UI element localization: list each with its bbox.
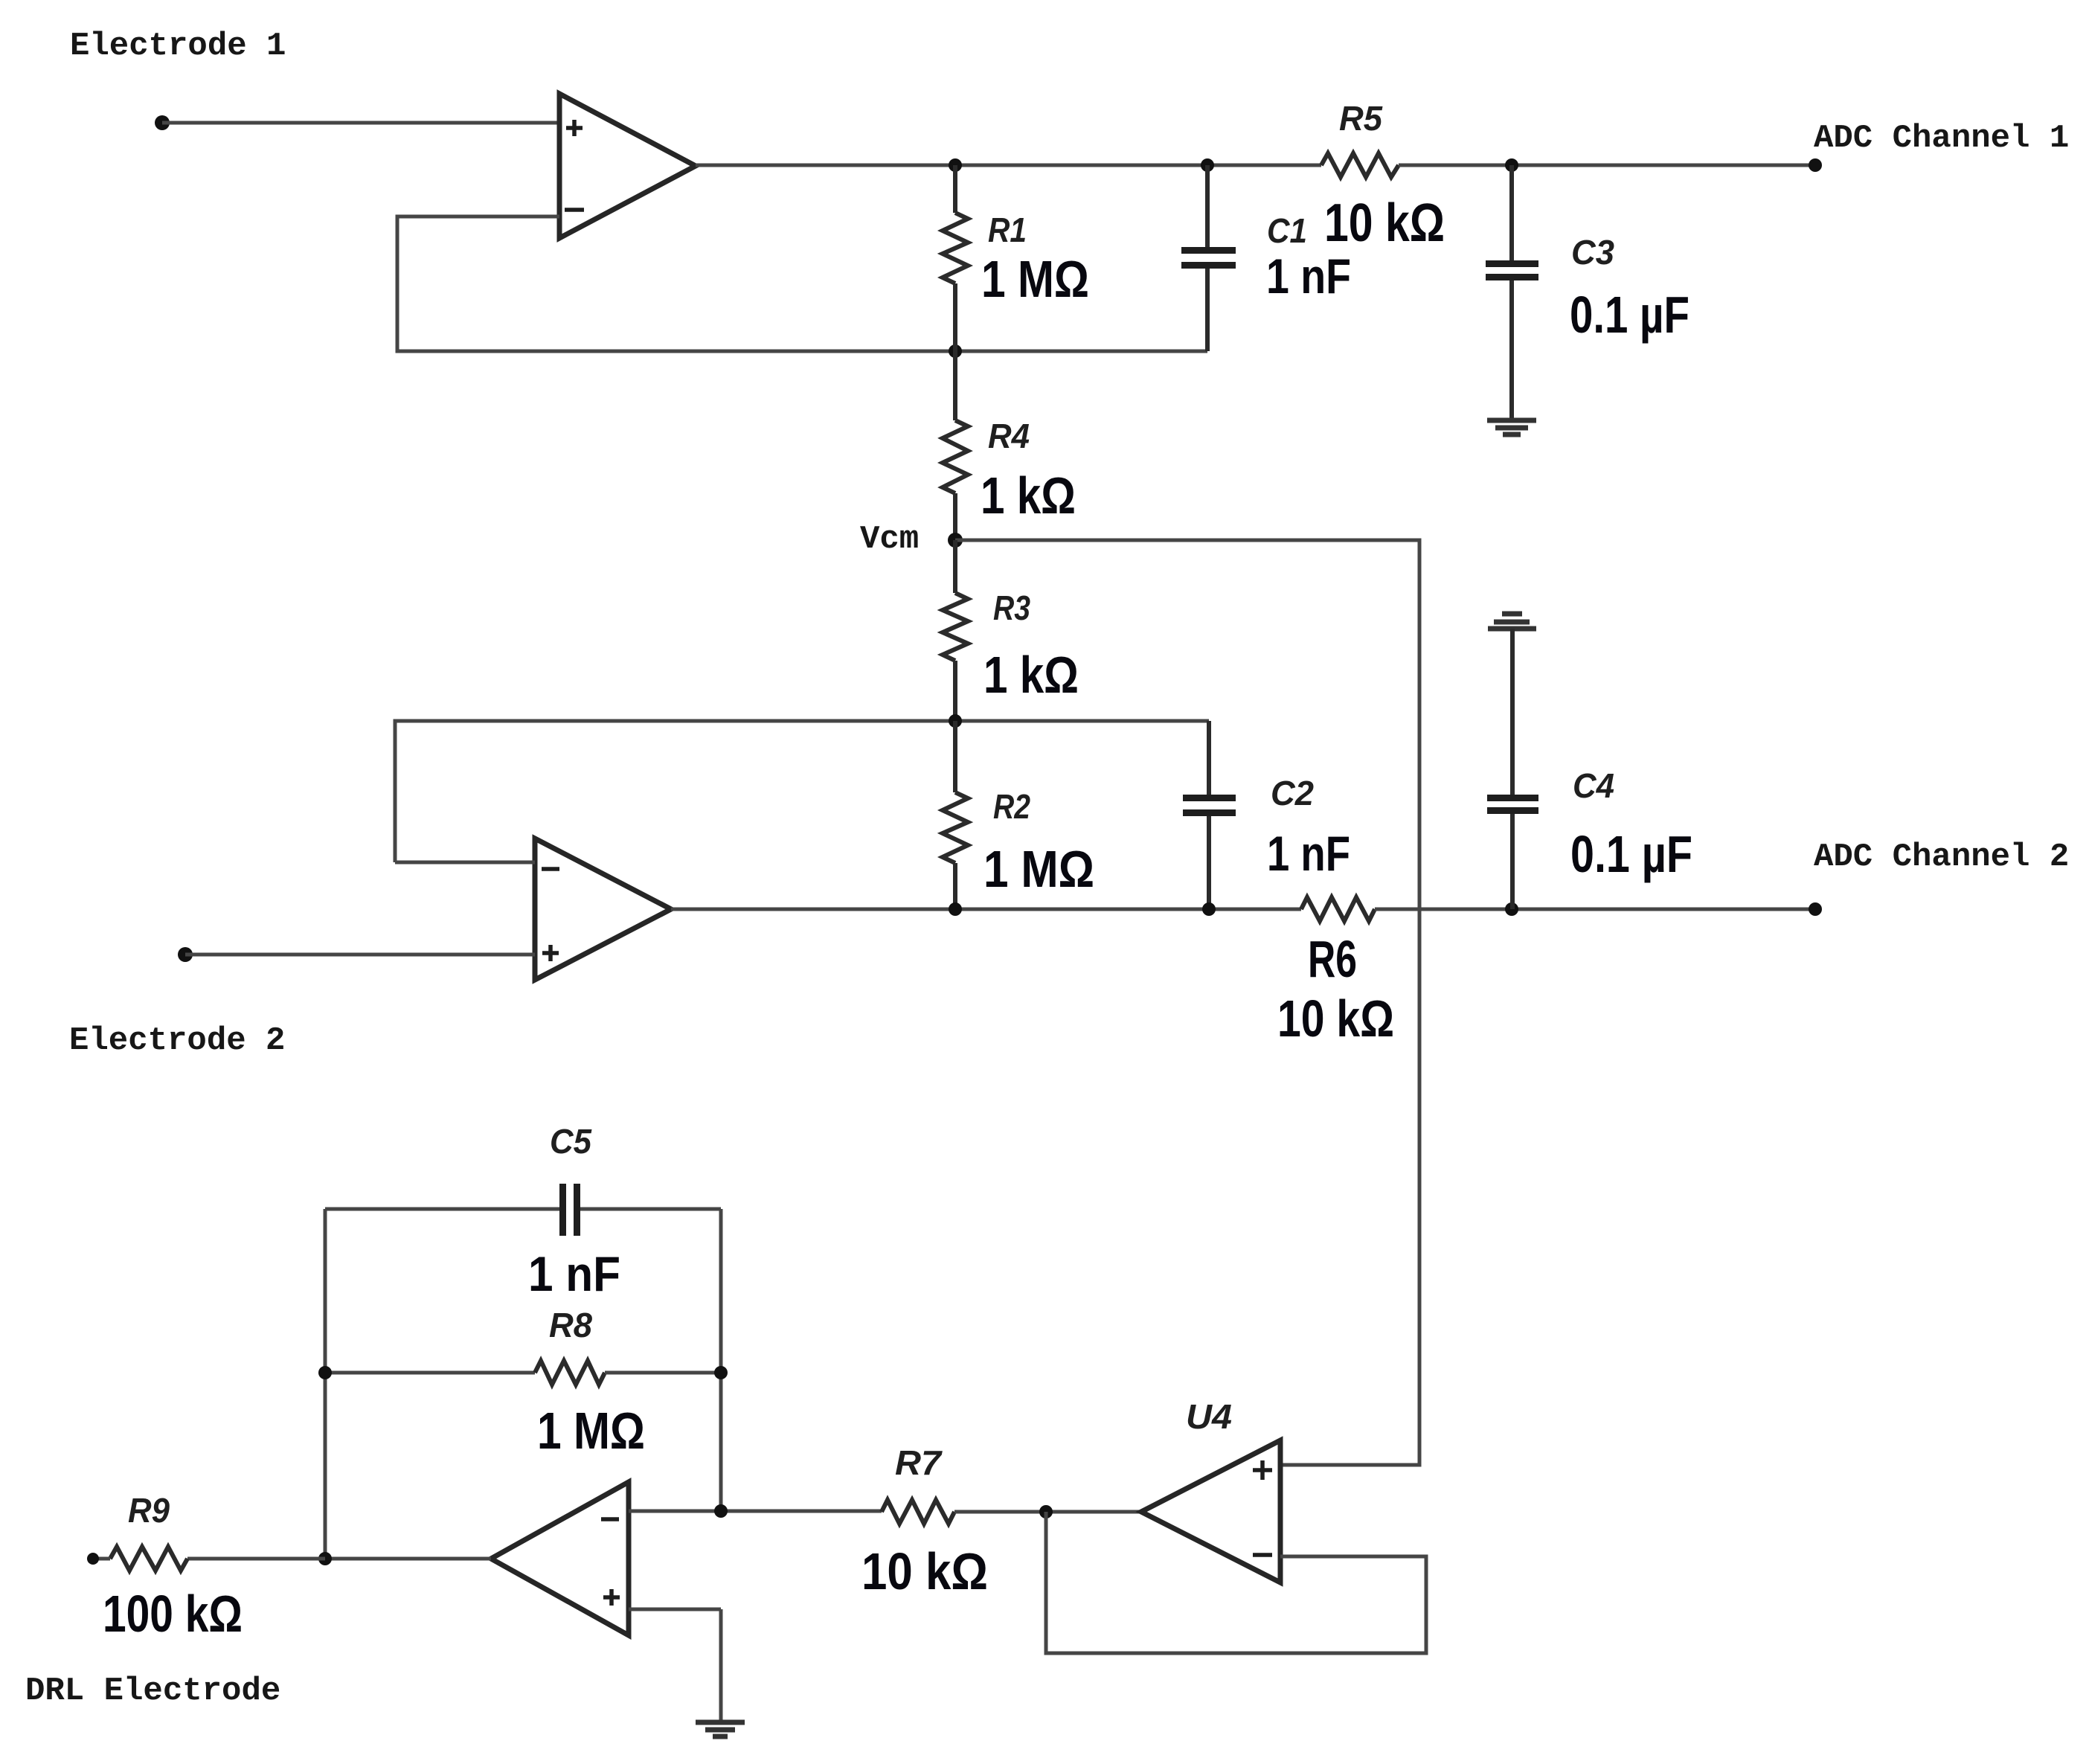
resistor R4: [943, 351, 968, 540]
capacitor C4: [1487, 629, 1538, 909]
capacitor C3: [1486, 165, 1538, 418]
wire: [93, 1557, 110, 1561]
wire: [954, 1510, 1141, 1514]
svg-text:C2: C2: [1271, 774, 1314, 812]
capacitor C2: [1183, 721, 1236, 909]
svg-text:1 kΩ: 1 kΩ: [981, 466, 1076, 525]
svg-text:C4: C4: [1573, 766, 1614, 805]
resistor R3: [943, 540, 968, 721]
resistor R6: [1301, 897, 1375, 921]
svg-text:R1: R1: [988, 211, 1027, 249]
wire: [1399, 164, 1815, 167]
wire: [719, 1609, 723, 1720]
wire: [395, 861, 535, 865]
op-amp U3: [491, 1482, 629, 1635]
svg-text:R2: R2: [993, 787, 1030, 826]
node ADC Channel 1 terminal: [1809, 158, 1822, 172]
wire: [162, 121, 559, 125]
resistor R1: [943, 165, 968, 351]
ground: [1487, 420, 1536, 434]
node Electrode 2 terminal: [178, 947, 193, 962]
ground: [696, 1722, 745, 1736]
node junction: [949, 714, 962, 728]
svg-text:1 MΩ: 1 MΩ: [981, 250, 1089, 308]
svg-text:1 MΩ: 1 MΩ: [537, 1402, 645, 1460]
svg-text:0.1 µF: 0.1 µF: [1570, 825, 1692, 883]
node junction: [949, 158, 962, 172]
wire: [397, 217, 1207, 351]
svg-text:Electrode 1: Electrode 1: [70, 28, 286, 65]
wire: [324, 1209, 327, 1559]
svg-text:C1: C1: [1267, 211, 1307, 250]
resistor R2: [943, 721, 968, 909]
op-amp U1: [559, 94, 696, 238]
node DRL Electrode terminal: [87, 1553, 99, 1565]
node junction: [1505, 902, 1518, 916]
wire: [629, 1608, 721, 1611]
node junction: [949, 344, 962, 358]
capacitor C5: [325, 1184, 721, 1236]
wire: [696, 164, 1321, 167]
wire: [187, 1557, 325, 1561]
wire: [395, 721, 1209, 862]
capacitor C1: [1181, 165, 1236, 351]
svg-text:R3: R3: [993, 588, 1030, 627]
node junction: [318, 1366, 332, 1379]
svg-text:1 nF: 1 nF: [1267, 826, 1350, 881]
svg-text:R9: R9: [128, 1491, 170, 1530]
svg-text:DRL Electrode: DRL Electrode: [25, 1672, 280, 1710]
wire: [185, 953, 535, 957]
svg-text:10 kΩ: 10 kΩ: [1324, 193, 1445, 253]
svg-text:ADC Channel 1: ADC Channel 1: [1814, 120, 2069, 157]
wire: [1046, 1512, 1426, 1653]
svg-text:R6: R6: [1308, 930, 1357, 988]
svg-text:1 kΩ: 1 kΩ: [983, 646, 1079, 704]
node Vcm junction: [948, 533, 963, 548]
resistor R5: [1321, 153, 1399, 177]
node junction: [714, 1366, 728, 1379]
svg-text:R8: R8: [549, 1306, 592, 1344]
node junction: [714, 1504, 728, 1518]
node junction: [318, 1552, 332, 1565]
node junction: [1202, 902, 1216, 916]
node junction: [1201, 158, 1214, 172]
resistor R8: [325, 1361, 721, 1385]
svg-text:R5: R5: [1339, 99, 1383, 138]
svg-text:U4: U4: [1186, 1397, 1232, 1436]
svg-text:Vcm: Vcm: [860, 521, 919, 558]
wire: [629, 1510, 882, 1513]
wire: [719, 1209, 723, 1511]
svg-text:10 kΩ: 10 kΩ: [1277, 990, 1394, 1048]
svg-text:0.1 µF: 0.1 µF: [1570, 286, 1690, 344]
svg-text:1 nF: 1 nF: [528, 1246, 620, 1301]
wire: [1375, 908, 1815, 911]
node junction: [1039, 1505, 1053, 1518]
resistor R7: [882, 1500, 954, 1524]
node junction: [1505, 158, 1518, 172]
op-amp U2: [535, 838, 671, 980]
ground inverted above C4: [1488, 614, 1536, 629]
svg-text:ADC Channel 2: ADC Channel 2: [1814, 838, 2069, 876]
svg-text:R7: R7: [895, 1443, 943, 1482]
wire: [955, 540, 1419, 1465]
svg-text:1 nF: 1 nF: [1266, 248, 1351, 304]
node ADC Channel 2 terminal: [1809, 902, 1822, 916]
svg-text:10 kΩ: 10 kΩ: [861, 1542, 988, 1600]
svg-text:100 kΩ: 100 kΩ: [103, 1585, 243, 1643]
svg-text:R4: R4: [988, 417, 1030, 455]
node Electrode 1 terminal: [155, 115, 170, 130]
resistor R9: [110, 1547, 187, 1571]
svg-text:C5: C5: [550, 1122, 592, 1161]
svg-text:Electrode 2: Electrode 2: [69, 1022, 285, 1059]
node junction: [949, 902, 962, 916]
svg-text:C3: C3: [1571, 233, 1614, 272]
wire: [325, 1557, 491, 1561]
svg-text:1 MΩ: 1 MΩ: [983, 840, 1094, 898]
wire: [671, 908, 1301, 911]
op-amp U4: [1141, 1440, 1280, 1582]
